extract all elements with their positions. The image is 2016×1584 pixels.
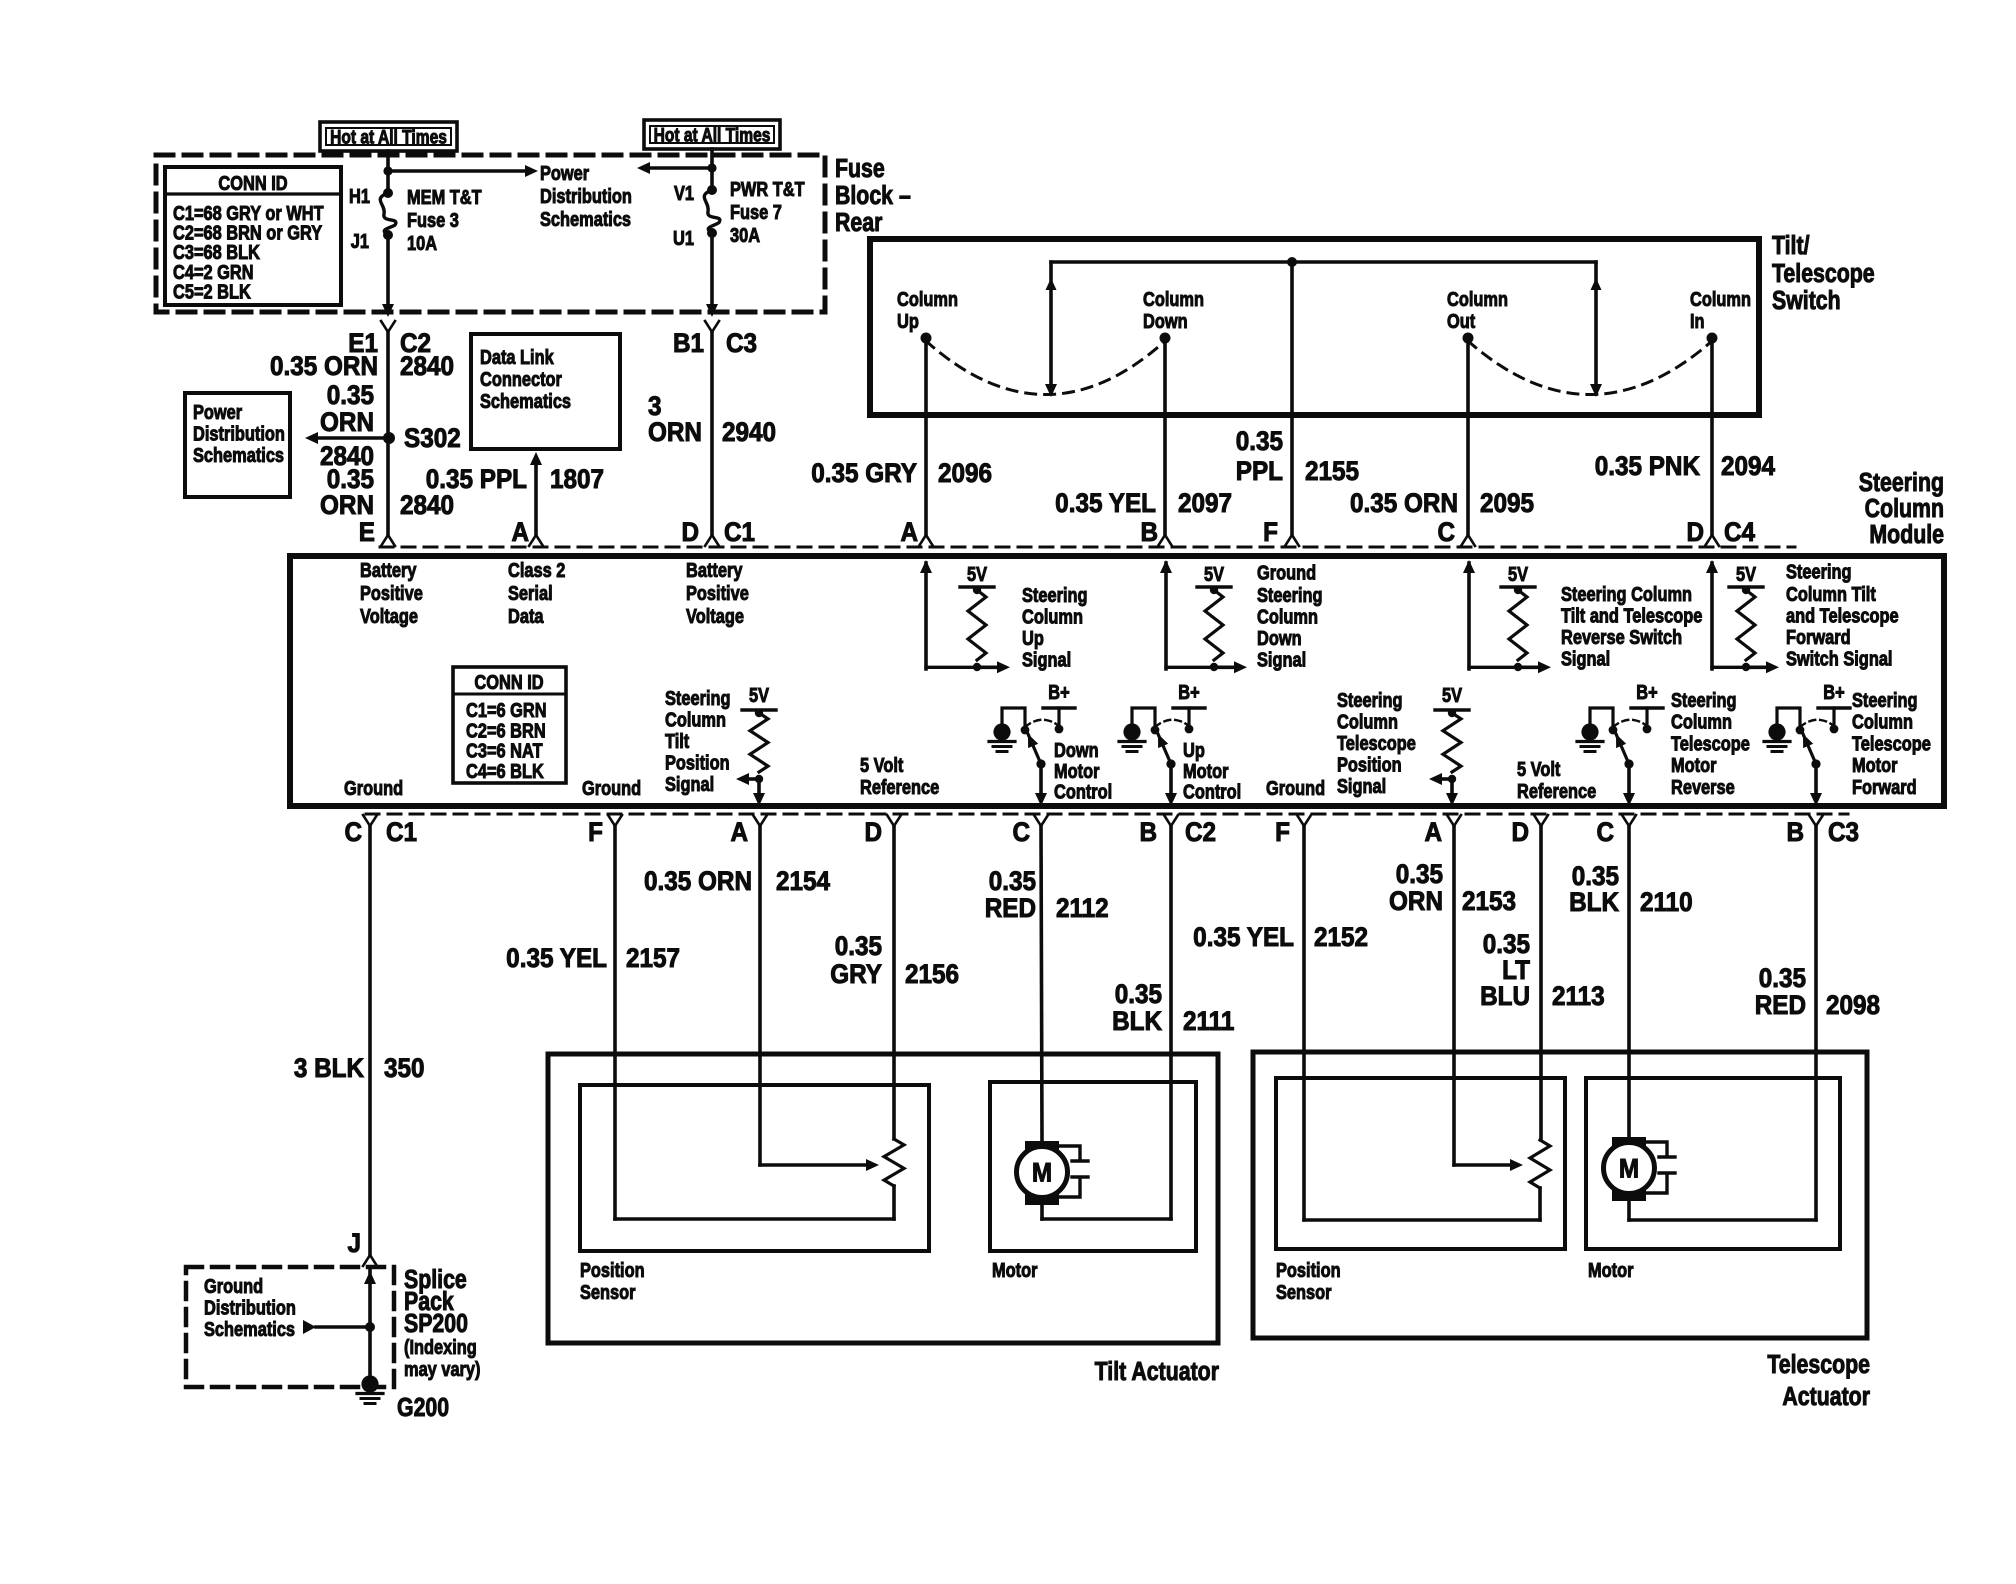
svg-text:Serial: Serial: [508, 581, 553, 604]
svg-text:Schematics: Schematics: [480, 389, 571, 412]
svg-text:Column: Column: [1022, 605, 1083, 628]
svg-text:Ground: Ground: [344, 776, 403, 799]
svg-text:3 BLK: 3 BLK: [294, 1054, 365, 1083]
svg-text:Steering: Steering: [665, 686, 731, 709]
svg-text:Data Link: Data Link: [480, 345, 554, 368]
svg-text:Ground: Ground: [1257, 561, 1316, 584]
svg-text:Battery: Battery: [686, 558, 743, 581]
svg-text:Column: Column: [1447, 287, 1508, 310]
svg-text:30A: 30A: [730, 223, 760, 246]
svg-text:MEM T&T: MEM T&T: [407, 185, 482, 208]
svg-text:5V: 5V: [1508, 562, 1529, 585]
svg-text:0.35 YEL: 0.35 YEL: [1193, 923, 1294, 952]
svg-text:Forward: Forward: [1852, 775, 1917, 798]
svg-text:B+: B+: [1636, 680, 1657, 703]
svg-text:Steering: Steering: [1786, 560, 1852, 583]
svg-text:0.35 ORN: 0.35 ORN: [1350, 489, 1458, 518]
svg-text:0.35 YEL: 0.35 YEL: [506, 944, 607, 973]
svg-text:Up: Up: [1183, 738, 1205, 761]
svg-text:A: A: [511, 518, 529, 547]
svg-text:Column: Column: [897, 287, 958, 310]
svg-text:Tilt Actuator: Tilt Actuator: [1095, 1357, 1219, 1387]
svg-text:Telescope: Telescope: [1772, 259, 1875, 289]
svg-text:Control: Control: [1054, 780, 1112, 803]
svg-text:Hot at All Times: Hot at All Times: [330, 126, 447, 148]
svg-text:2112: 2112: [1056, 894, 1109, 923]
svg-text:Connector: Connector: [480, 367, 562, 390]
svg-text:2155: 2155: [1305, 457, 1359, 486]
svg-text:Position: Position: [665, 751, 730, 774]
svg-text:C1: C1: [724, 518, 755, 547]
svg-text:B: B: [1786, 818, 1804, 847]
svg-text:2154: 2154: [776, 867, 831, 896]
svg-text:GRY: GRY: [830, 960, 882, 989]
svg-text:2152: 2152: [1314, 923, 1368, 952]
svg-text:Class 2: Class 2: [508, 558, 565, 581]
svg-text:B1: B1: [673, 329, 704, 358]
svg-text:B: B: [1139, 818, 1157, 847]
svg-text:G200: G200: [397, 1393, 449, 1423]
svg-text:Sensor: Sensor: [580, 1280, 636, 1303]
svg-text:0.35 ORN: 0.35 ORN: [644, 867, 752, 896]
svg-text:Voltage: Voltage: [360, 604, 418, 627]
svg-text:Data: Data: [508, 604, 544, 627]
svg-text:M: M: [1619, 1154, 1639, 1183]
svg-text:0.35: 0.35: [327, 381, 374, 410]
svg-text:B+: B+: [1178, 680, 1199, 703]
svg-text:B: B: [1140, 518, 1158, 547]
svg-text:Steering Column: Steering Column: [1561, 582, 1692, 605]
svg-text:C: C: [1012, 818, 1030, 847]
svg-text:D: D: [681, 518, 699, 547]
svg-text:2940: 2940: [722, 418, 776, 447]
svg-text:J: J: [347, 1229, 361, 1258]
svg-text:Signal: Signal: [1337, 774, 1386, 797]
svg-text:Power: Power: [193, 400, 242, 423]
svg-text:Switch: Switch: [1772, 286, 1841, 316]
svg-text:5 Volt: 5 Volt: [1517, 757, 1560, 780]
svg-text:Motor: Motor: [1852, 754, 1897, 777]
svg-text:Position: Position: [1276, 1258, 1341, 1281]
svg-text:Voltage: Voltage: [686, 604, 744, 627]
svg-text:5V: 5V: [1736, 562, 1757, 585]
svg-text:SP200: SP200: [404, 1309, 468, 1339]
svg-text:A: A: [730, 818, 748, 847]
svg-text:Up: Up: [1022, 626, 1044, 649]
svg-text:B+: B+: [1823, 680, 1844, 703]
svg-text:Motor: Motor: [1054, 759, 1099, 782]
svg-text:0.35 GRY: 0.35 GRY: [811, 459, 917, 488]
svg-text:Column: Column: [1671, 710, 1732, 733]
svg-text:F: F: [588, 818, 603, 847]
svg-text:A: A: [900, 518, 918, 547]
svg-text:In: In: [1690, 309, 1705, 332]
svg-text:5V: 5V: [749, 683, 770, 706]
svg-text:CONN ID: CONN ID: [218, 171, 287, 194]
svg-text:Telescope: Telescope: [1852, 732, 1931, 755]
svg-text:Signal: Signal: [665, 772, 714, 795]
svg-text:2153: 2153: [1462, 887, 1516, 916]
svg-text:0.35: 0.35: [835, 932, 882, 961]
svg-text:10A: 10A: [407, 231, 437, 254]
svg-text:Distribution: Distribution: [540, 184, 632, 207]
svg-text:Signal: Signal: [1561, 647, 1610, 670]
svg-text:2113: 2113: [1552, 982, 1605, 1011]
svg-text:H1: H1: [349, 184, 370, 207]
svg-text:2840: 2840: [400, 491, 454, 520]
svg-text:0.35 ORN: 0.35 ORN: [270, 352, 378, 381]
svg-text:0.35 PPL: 0.35 PPL: [426, 465, 527, 494]
svg-text:1807: 1807: [550, 465, 604, 494]
svg-text:0.35: 0.35: [1759, 964, 1806, 993]
svg-text:Motor: Motor: [1671, 754, 1716, 777]
svg-text:Power: Power: [540, 161, 589, 184]
svg-text:Motor: Motor: [992, 1258, 1037, 1281]
svg-text:Schematics: Schematics: [540, 207, 631, 230]
svg-text:F: F: [1275, 818, 1290, 847]
svg-text:Position: Position: [1337, 753, 1402, 776]
svg-text:Telescope: Telescope: [1337, 731, 1416, 754]
svg-text:350: 350: [384, 1054, 425, 1083]
svg-text:2840: 2840: [400, 352, 454, 381]
svg-text:Position: Position: [580, 1258, 645, 1281]
svg-text:Out: Out: [1447, 309, 1475, 332]
svg-text:C: C: [1437, 518, 1455, 547]
svg-text:Ground: Ground: [582, 776, 641, 799]
svg-text:Motor: Motor: [1588, 1258, 1633, 1281]
svg-text:Column: Column: [1257, 605, 1318, 628]
svg-text:D: D: [864, 818, 882, 847]
svg-text:PWR T&T: PWR T&T: [730, 177, 805, 200]
svg-text:Steering: Steering: [1671, 688, 1737, 711]
svg-text:Reference: Reference: [860, 775, 939, 798]
svg-text:Distribution: Distribution: [193, 422, 285, 445]
svg-text:U1: U1: [673, 226, 694, 249]
svg-text:Telescope: Telescope: [1767, 1350, 1870, 1380]
svg-text:Positive: Positive: [360, 581, 423, 604]
svg-text:V1: V1: [674, 181, 694, 204]
svg-text:0.35: 0.35: [1236, 427, 1283, 456]
svg-text:Column: Column: [1337, 710, 1398, 733]
svg-text:Tilt/: Tilt/: [1772, 231, 1810, 261]
svg-text:C4: C4: [1724, 518, 1756, 547]
svg-text:0.35 YEL: 0.35 YEL: [1055, 489, 1156, 518]
svg-text:0.35: 0.35: [989, 867, 1036, 896]
svg-text:Distribution: Distribution: [204, 1296, 296, 1319]
svg-text:Sensor: Sensor: [1276, 1280, 1332, 1303]
svg-text:2094: 2094: [1721, 452, 1776, 481]
svg-text:Block –: Block –: [835, 181, 911, 211]
svg-text:RED: RED: [985, 894, 1036, 923]
svg-text:2156: 2156: [905, 960, 959, 989]
svg-text:2157: 2157: [626, 944, 680, 973]
svg-text:Reference: Reference: [1517, 779, 1596, 802]
svg-text:ORN: ORN: [648, 418, 702, 447]
svg-text:5V: 5V: [1442, 683, 1463, 706]
svg-text:BLK: BLK: [1569, 888, 1619, 917]
svg-text:Tilt and Telescope: Tilt and Telescope: [1561, 604, 1702, 627]
svg-text:D: D: [1511, 818, 1529, 847]
svg-text:0.35: 0.35: [1396, 860, 1443, 889]
svg-text:Steering: Steering: [1257, 583, 1323, 606]
svg-text:2095: 2095: [1480, 489, 1534, 518]
svg-text:Down: Down: [1054, 738, 1099, 761]
svg-text:Tilt: Tilt: [665, 729, 689, 752]
svg-text:Actuator: Actuator: [1782, 1382, 1870, 1412]
svg-text:0.35: 0.35: [1115, 980, 1162, 1009]
svg-text:Column Tilt: Column Tilt: [1786, 582, 1876, 605]
svg-text:2098: 2098: [1826, 991, 1880, 1020]
svg-text:Telescope: Telescope: [1671, 732, 1750, 755]
svg-text:Fuse: Fuse: [835, 154, 885, 184]
svg-text:may vary): may vary): [404, 1357, 481, 1380]
svg-text:Rear: Rear: [835, 208, 882, 238]
svg-text:Steering: Steering: [1337, 688, 1403, 711]
svg-text:C1: C1: [386, 818, 417, 847]
svg-text:5 Volt: 5 Volt: [860, 753, 903, 776]
svg-text:Hot at All Times: Hot at All Times: [654, 124, 771, 146]
svg-text:Column: Column: [665, 708, 726, 731]
svg-text:Up: Up: [897, 309, 919, 332]
svg-text:Ground: Ground: [204, 1274, 263, 1297]
svg-text:Column: Column: [1690, 287, 1751, 310]
svg-text:C: C: [344, 818, 362, 847]
svg-text:Schematics: Schematics: [193, 443, 284, 466]
svg-text:Positive: Positive: [686, 581, 749, 604]
svg-text:E: E: [359, 518, 375, 547]
svg-text:Column: Column: [1852, 710, 1913, 733]
svg-text:Signal: Signal: [1022, 648, 1071, 671]
svg-text:Column: Column: [1143, 287, 1204, 310]
svg-text:Control: Control: [1183, 780, 1241, 803]
svg-text:Module: Module: [1869, 520, 1944, 550]
svg-text:ORN: ORN: [1389, 887, 1443, 916]
svg-text:A: A: [1424, 818, 1442, 847]
svg-text:Steering: Steering: [1022, 583, 1088, 606]
svg-text:Motor: Motor: [1183, 759, 1228, 782]
svg-text:Reverse Switch: Reverse Switch: [1561, 625, 1682, 648]
svg-text:BLK: BLK: [1112, 1007, 1162, 1036]
svg-text:M: M: [1032, 1158, 1052, 1187]
svg-text:D: D: [1686, 518, 1704, 547]
svg-text:C3: C3: [726, 329, 757, 358]
svg-text:RED: RED: [1755, 991, 1806, 1020]
svg-text:2110: 2110: [1640, 888, 1693, 917]
svg-text:5V: 5V: [1204, 562, 1225, 585]
svg-text:2111: 2111: [1183, 1007, 1234, 1036]
svg-text:2096: 2096: [938, 459, 992, 488]
svg-text:Steering: Steering: [1852, 688, 1918, 711]
svg-text:Fuse 3: Fuse 3: [407, 208, 459, 231]
svg-text:S302: S302: [404, 424, 461, 453]
svg-text:Reverse: Reverse: [1671, 775, 1735, 798]
svg-text:C4=6 BLK: C4=6 BLK: [466, 759, 545, 782]
svg-text:C2: C2: [1185, 818, 1216, 847]
svg-text:and Telescope: and Telescope: [1786, 604, 1899, 627]
svg-text:C3: C3: [1828, 818, 1859, 847]
svg-text:Ground: Ground: [1266, 776, 1325, 799]
svg-text:Schematics: Schematics: [204, 1317, 295, 1340]
svg-text:B+: B+: [1048, 680, 1069, 703]
svg-text:Switch Signal: Switch Signal: [1786, 647, 1892, 670]
svg-text:C: C: [1596, 818, 1614, 847]
svg-text:PPL: PPL: [1236, 457, 1283, 486]
svg-text:ORN: ORN: [320, 408, 374, 437]
svg-text:Signal: Signal: [1257, 648, 1306, 671]
svg-text:Down: Down: [1257, 626, 1302, 649]
svg-text:Forward: Forward: [1786, 625, 1851, 648]
svg-text:(Indexing: (Indexing: [404, 1335, 477, 1358]
svg-text:5V: 5V: [967, 562, 988, 585]
svg-text:F: F: [1263, 518, 1278, 547]
svg-text:Fuse 7: Fuse 7: [730, 200, 782, 223]
svg-text:0.35 PNK: 0.35 PNK: [1595, 452, 1701, 481]
svg-text:BLU: BLU: [1480, 982, 1530, 1011]
svg-text:Down: Down: [1143, 309, 1188, 332]
svg-text:Battery: Battery: [360, 558, 417, 581]
svg-text:ORN: ORN: [320, 491, 374, 520]
svg-text:J1: J1: [351, 229, 369, 252]
svg-text:C5=2 BLK: C5=2 BLK: [173, 280, 252, 303]
svg-text:CONN ID: CONN ID: [474, 670, 543, 693]
svg-text:2097: 2097: [1178, 489, 1232, 518]
